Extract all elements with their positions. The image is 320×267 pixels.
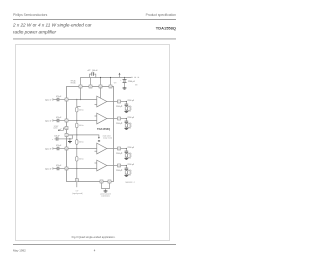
svg-text:0 V: 0 V — [76, 191, 79, 193]
op-amp A4 — [97, 160, 107, 171]
wire SVR ground stub — [69, 139, 71, 141]
wire pin to A4 — [68, 168, 97, 170]
node bias bus column — [76, 134, 77, 135]
pin 11 output — [118, 147, 121, 150]
svg-text:470 nF: 470 nF — [56, 96, 61, 98]
wire stub pin 6 — [90, 78, 92, 85]
wire C9 to LS1 — [125, 106, 127, 107]
pin 6 top — [89, 85, 92, 88]
svg-text:+: + — [52, 139, 54, 141]
svg-text:2200 µF: 2200 µF — [116, 123, 122, 125]
wire LS1 to ground — [125, 109, 127, 112]
svg-text:2200 µF: 2200 µF — [128, 81, 136, 83]
wire pin 13 to junction — [121, 165, 127, 167]
pin 16 left — [65, 147, 68, 150]
wire A4 output — [107, 165, 118, 167]
svg-text:(substrate): (substrate) — [101, 194, 110, 197]
wire pin 5 to junction — [121, 101, 127, 103]
ground C14 — [123, 87, 127, 90]
svg-text:11: 11 — [118, 149, 120, 151]
pin 8 bottom — [100, 180, 103, 183]
wire A4 inverting stub — [95, 162, 97, 164]
ground LS3 — [125, 157, 129, 160]
wire power drop to A1 — [100, 88, 102, 99]
wire stub pin 12 — [110, 78, 112, 85]
pin 4 top — [79, 85, 82, 88]
svg-text:2200 µF: 2200 µF — [127, 164, 135, 166]
svg-text:input 3: input 3 — [45, 148, 52, 151]
wire A1 inverting stub — [95, 104, 97, 106]
dashed rail continuation — [131, 76, 133, 79]
node SVR ground — [69, 138, 70, 139]
IC U1 TDA1558Q body — [67, 87, 114, 182]
svg-text:2200 µF: 2200 µF — [116, 106, 122, 108]
supply rail +VP wire — [81, 78, 132, 85]
svg-text:VP1(A): VP1(A) — [71, 79, 76, 82]
supply terminal arrow +VP — [119, 74, 121, 77]
svg-text:4: 4 — [94, 248, 96, 252]
loudspeaker LS2 — [125, 124, 127, 127]
svg-text:TDA1558Q: TDA1558Q — [97, 127, 110, 131]
svg-text:4: 4 — [131, 170, 132, 172]
capacitor C2 470nF — [56, 119, 58, 122]
wire pin to A2 — [68, 120, 97, 122]
internal bias bus wire — [68, 135, 99, 137]
ground SVR — [68, 140, 72, 143]
loudspeaker LS4 — [125, 171, 127, 174]
wire pin 11 to junction — [121, 148, 127, 150]
svg-text:input 2: input 2 — [45, 120, 52, 123]
svg-text:2200 µF: 2200 µF — [127, 117, 135, 119]
note mark below dashes — [135, 84, 137, 87]
svg-text:13: 13 — [118, 166, 120, 168]
svg-text:2200 µF: 2200 µF — [116, 170, 122, 172]
wire input3 to C3 — [54, 148, 58, 150]
svg-text:4: 4 — [131, 123, 132, 125]
svg-text:470 nF: 470 nF — [56, 145, 61, 147]
pin 3 SVR left — [65, 134, 68, 137]
svg-text:2200 µF: 2200 µF — [127, 100, 135, 102]
pin 9 bottom — [108, 180, 111, 183]
node output 2 — [126, 118, 127, 119]
wire C1 to pin — [59, 99, 65, 101]
node column input4 — [76, 168, 77, 169]
svg-text:1: 1 — [66, 100, 67, 102]
svg-text:Product specification: Product specification — [146, 13, 177, 17]
wire A3 inverting stub — [95, 150, 97, 152]
resistor R2 — [76, 123, 78, 128]
capacitor C14 2200uF electrolytic — [123, 79, 127, 81]
capacitor C15 100uF — [55, 137, 57, 140]
wire ground pins — [102, 183, 110, 189]
svg-text:MGD332 - 2: MGD332 - 2 — [126, 182, 135, 184]
svg-text:VP2: VP2 — [114, 82, 117, 84]
capacitor C13 100nF — [91, 72, 93, 75]
svg-text:+VP: +VP — [87, 70, 91, 72]
node rail C14 — [124, 77, 125, 78]
svg-text:Philips Semiconductors: Philips Semiconductors — [13, 13, 48, 17]
ground LS2 — [125, 127, 129, 130]
wire C11 to LS3 — [125, 153, 127, 154]
wire input4 to C4 — [54, 168, 58, 170]
pin 13 output — [118, 164, 121, 167]
footer rule — [13, 243, 176, 246]
resistor R1 — [76, 107, 78, 112]
ground LS4 — [125, 174, 129, 177]
svg-text:470 nF: 470 nF — [56, 117, 61, 119]
wire input2 to C2 — [54, 120, 58, 122]
svg-text:TDA1558Q: TDA1558Q — [156, 26, 176, 31]
capacitor C4 470nF — [56, 167, 58, 170]
mode circuit arrow — [98, 137, 100, 139]
svg-text:2200 µF: 2200 µF — [116, 153, 122, 155]
node output 3 — [126, 148, 127, 149]
switch S1 — [58, 129, 60, 131]
pin 1 left — [65, 98, 68, 101]
svg-text:7: 7 — [119, 119, 120, 121]
capacitor C1 470nF — [56, 98, 58, 101]
pin 12 top — [109, 85, 112, 88]
node pin1 drop — [80, 99, 81, 100]
svg-text:6: 6 — [90, 87, 91, 89]
svg-text:2200 µF: 2200 µF — [127, 147, 135, 149]
svg-text:15: 15 — [66, 169, 68, 171]
ground LS1 — [125, 110, 129, 113]
svg-text:ST-BY: ST-BY — [54, 126, 60, 128]
wire pin 7 to junction — [121, 118, 127, 120]
svg-text:3: 3 — [66, 135, 67, 137]
wire LS2 to ground — [125, 126, 127, 129]
svg-text:2 x 22 W or 4 x 11 W single-en: 2 x 22 W or 4 x 11 W single-ended car — [12, 22, 92, 27]
svg-text:VP2(B): VP2(B) — [71, 83, 76, 85]
wire LS3 to ground — [125, 156, 127, 159]
svg-text:+: + — [120, 79, 121, 81]
wire pin to A3 — [68, 148, 97, 150]
node rail pin12 — [110, 77, 111, 78]
resistor R3 — [76, 140, 78, 145]
wire column stub A1 — [77, 106, 81, 108]
svg-text:May 1992: May 1992 — [13, 248, 26, 252]
svg-text:input 1: input 1 — [45, 99, 52, 102]
loudspeaker LS1 — [125, 107, 127, 110]
wire junction to C9 — [125, 102, 127, 105]
wire bend to pin 3 — [68, 135, 72, 139]
header rule — [13, 18, 176, 21]
wire stub pin 10 — [100, 78, 102, 85]
svg-text:16: 16 — [66, 149, 68, 151]
node output 4 — [126, 165, 127, 166]
node column input1 — [76, 99, 77, 100]
op-amp A1 — [97, 96, 107, 107]
svg-text:470 nF: 470 nF — [56, 165, 61, 167]
wire C2 to pin — [59, 120, 65, 122]
svg-text:100 µF: 100 µF — [54, 135, 59, 137]
capacitor C3 470nF — [56, 147, 58, 150]
wire to power ground — [105, 189, 107, 191]
pin 10 top — [99, 85, 102, 88]
wire A1 output — [107, 101, 118, 103]
node column input3 — [76, 148, 77, 149]
svg-text:5: 5 — [119, 102, 120, 104]
svg-text:2: 2 — [66, 121, 67, 123]
capacitor C11 2200uF — [125, 150, 129, 152]
svg-text:input 4: input 4 — [45, 168, 52, 171]
wire pin to A1 — [68, 99, 97, 101]
wire junction to C12 — [125, 166, 127, 169]
node rail pin10 — [100, 77, 101, 78]
wire pin1 drop to input1 — [80, 88, 82, 100]
wire C3 to pin — [59, 148, 65, 150]
wire C10 to LS2 — [125, 123, 127, 124]
wire switch to pin 14 — [60, 128, 66, 130]
pin 2 left — [65, 119, 68, 122]
capacitor C12 2200uF — [125, 167, 129, 169]
svg-text:4: 4 — [131, 153, 132, 155]
svg-text:4: 4 — [131, 106, 132, 108]
capacitor C9 2200uF — [125, 103, 129, 105]
wire input1 to C1 — [54, 99, 58, 101]
wire C14 to ground — [124, 83, 126, 88]
wire junction to C10 — [125, 119, 127, 122]
node column input2 — [76, 120, 77, 121]
pin 7 output — [118, 117, 121, 120]
resistor R4 — [76, 157, 78, 162]
pin 15 left — [65, 167, 68, 170]
svg-text:radio power amplifier: radio power amplifier — [13, 29, 57, 34]
ground power (substrate) — [104, 190, 108, 193]
svg-text:100 nF: 100 nF — [92, 70, 98, 72]
figure frame — [16, 45, 170, 241]
wire feedback column — [76, 100, 78, 179]
100nF branch wire — [90, 74, 96, 77]
wire C12 to LS4 — [125, 170, 127, 171]
wire A2 inverting stub — [95, 115, 97, 117]
pin 5 output — [118, 100, 121, 103]
wire pin 17 to signal ground — [76, 182, 78, 188]
loudspeaker LS3 — [125, 154, 127, 157]
pin 14 mode left — [65, 127, 68, 130]
wire LS4 to ground — [125, 173, 127, 176]
title rule — [13, 38, 176, 41]
svg-text:14: 14 — [66, 128, 68, 130]
svg-text:12: 12 — [110, 87, 112, 89]
wire junction to C11 — [125, 149, 127, 152]
op-amp A2 — [97, 113, 107, 124]
wire C15 left tail — [54, 138, 56, 140]
node output 1 — [126, 101, 127, 102]
wire A3 output — [107, 148, 118, 150]
wire rail to C14 — [124, 78, 126, 80]
pin 17 box bottom-left — [75, 179, 78, 182]
op-amp A3 — [97, 143, 107, 154]
capacitor C10 2200uF — [125, 120, 129, 122]
svg-text:Fig.3 Quad single-ended appli: Fig.3 Quad single-ended application. — [72, 235, 116, 239]
wire A2 output — [107, 118, 118, 120]
wire C15 to bend — [58, 138, 72, 140]
wire C4 to pin — [59, 168, 65, 170]
